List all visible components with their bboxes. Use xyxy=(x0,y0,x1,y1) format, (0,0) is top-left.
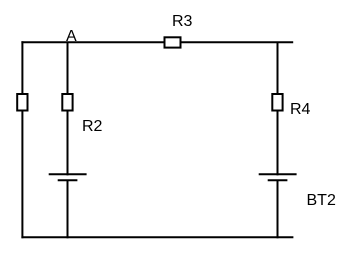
resistor R1 xyxy=(17,94,27,111)
battery BT1 long plate xyxy=(49,173,87,175)
resistor R4 xyxy=(272,94,282,111)
wire right branch lower xyxy=(277,180,279,238)
svg-text:R4: R4 xyxy=(290,101,311,118)
wire node A branch upper xyxy=(67,42,69,175)
svg-text:BT2: BT2 xyxy=(307,192,336,209)
wire right branch upper xyxy=(277,42,279,175)
svg-text:R2: R2 xyxy=(82,118,103,135)
svg-text:A: A xyxy=(66,28,77,45)
battery BT2 short plate xyxy=(268,179,288,181)
wire left xyxy=(21,41,23,238)
wire bottom xyxy=(21,236,293,238)
resistor R2 xyxy=(62,94,72,111)
wire top xyxy=(21,41,293,43)
svg-text:R3: R3 xyxy=(172,13,193,30)
resistor R3 xyxy=(165,37,181,47)
wire node A branch lower xyxy=(67,180,69,238)
battery BT2 long plate xyxy=(259,173,297,175)
battery BT1 short plate xyxy=(58,179,78,181)
